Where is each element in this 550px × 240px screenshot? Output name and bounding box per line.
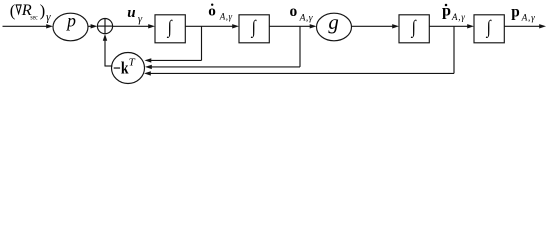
label -k^T in feedback node xyxy=(113,56,136,77)
label u_gamma xyxy=(127,5,143,25)
label o-dot A,gamma xyxy=(208,3,232,22)
wire feedback tap 1 xyxy=(145,26,202,62)
integrator block 4 xyxy=(474,15,504,43)
wire p to summing junction xyxy=(88,24,97,28)
svg-text:A,γ: A,γ xyxy=(299,13,313,24)
wire input arrow xyxy=(3,24,54,28)
integrator block 1 xyxy=(155,15,185,43)
wire g to integrator 3 xyxy=(352,24,400,28)
svg-text:A,γ: A,γ xyxy=(451,12,466,22)
wire -k^T output to summing junction xyxy=(103,34,113,67)
svg-text:A,γ: A,γ xyxy=(219,12,233,22)
integrator block 3 xyxy=(399,15,429,43)
label o A,gamma xyxy=(290,3,313,23)
integrator block 2 xyxy=(239,15,269,43)
input label (nabla R_sec)_gamma xyxy=(10,0,51,24)
wire integrator1 to integrator2 xyxy=(185,24,239,28)
svg-text:T: T xyxy=(129,56,136,68)
node g xyxy=(317,13,352,41)
svg-text:): ) xyxy=(40,1,46,20)
svg-text:A,γ: A,γ xyxy=(521,14,536,24)
wire integrator3 to integrator4 xyxy=(429,24,474,28)
svg-text:p: p xyxy=(65,10,76,30)
svg-text:p: p xyxy=(511,3,520,20)
svg-text:γ: γ xyxy=(46,12,51,24)
summing junction xyxy=(97,19,112,34)
wire integrator2 to g xyxy=(269,24,316,28)
svg-text:sec: sec xyxy=(30,12,38,21)
label p A,gamma output xyxy=(511,3,535,23)
node p xyxy=(53,13,88,41)
feedback gain node -k^T xyxy=(112,53,145,84)
svg-text:g: g xyxy=(328,11,338,34)
wire feedback tap 2 xyxy=(145,26,300,69)
wire sum to integrator 1 xyxy=(113,24,155,28)
wire feedback tap 3 xyxy=(144,26,454,75)
svg-text:o: o xyxy=(290,3,298,20)
wire output arrow xyxy=(504,24,546,28)
label p-dot A,gamma xyxy=(442,2,466,23)
svg-text:γ: γ xyxy=(138,13,143,25)
svg-text:(: ( xyxy=(10,1,16,20)
svg-text:−k: −k xyxy=(113,58,129,77)
svg-text:u: u xyxy=(127,5,135,21)
